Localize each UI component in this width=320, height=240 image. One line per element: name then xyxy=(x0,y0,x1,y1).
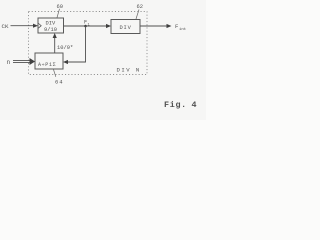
svg-text:DIV N: DIV N xyxy=(117,66,141,73)
svg-text:64: 64 xyxy=(55,79,63,86)
block U62 DIV xyxy=(111,20,140,34)
clock chevron pin U60 xyxy=(38,23,41,28)
block U60 DIV 9/10 xyxy=(38,18,64,33)
wire feedback F1 to U64 xyxy=(63,26,86,64)
svg-text:n: n xyxy=(7,59,11,66)
wire U64 control 10/9* to U60 xyxy=(53,33,57,53)
block U64 accumulator A-P1S xyxy=(35,53,63,69)
node label F1 xyxy=(84,20,91,28)
wire U62 output to Fint xyxy=(140,24,172,28)
svg-text:int: int xyxy=(179,27,186,32)
reference numeral 60 xyxy=(57,4,63,18)
caption Fig. 4 xyxy=(164,100,197,110)
wire U60 output to U62 (net F1) xyxy=(64,24,112,28)
reference numeral 62 xyxy=(136,4,143,19)
reference numeral 64 xyxy=(54,70,64,86)
svg-text:DIV: DIV xyxy=(120,25,132,31)
svg-text:9/10: 9/10 xyxy=(44,27,57,33)
svg-text:A÷P1Σ: A÷P1Σ xyxy=(38,62,56,68)
node label Fint xyxy=(175,23,186,32)
svg-text:F: F xyxy=(175,23,178,30)
svg-text:DIV: DIV xyxy=(46,21,56,27)
dashed enclosure DIV N xyxy=(29,12,148,75)
bus n input to U64 xyxy=(13,58,35,65)
svg-text:62: 62 xyxy=(137,4,143,10)
svg-text:CK: CK xyxy=(2,23,9,30)
wire CK to U60 xyxy=(11,24,39,28)
svg-text:Fig.: Fig. xyxy=(164,100,187,110)
svg-text:4: 4 xyxy=(192,100,197,110)
node F1 junction xyxy=(84,25,87,28)
svg-text:10/9*: 10/9* xyxy=(57,45,73,51)
